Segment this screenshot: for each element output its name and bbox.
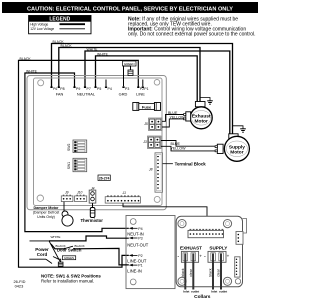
doc number	[14, 279, 26, 288]
svg-text:0423: 0423	[15, 283, 24, 288]
svg-text:P1: P1	[144, 87, 148, 91]
arrow P2 line-out	[127, 254, 147, 264]
terminal P1 pad	[142, 86, 144, 88]
svg-text:SW1: SW1	[67, 162, 71, 169]
supply collar terminal	[204, 251, 230, 262]
collar board screw TR	[223, 220, 231, 228]
pcb hole TL	[38, 80, 44, 86]
collar board corner hole	[235, 279, 240, 284]
damper motor	[33, 202, 73, 226]
door switch black wire	[51, 244, 129, 265]
wire black P8 to exhaust motor	[59, 44, 200, 102]
inlet outlet labels	[183, 290, 227, 294]
wire J1 to collar board	[123, 203, 207, 230]
connector J10	[75, 190, 87, 201]
svg-text:LINE-IN: LINE-IN	[127, 269, 142, 274]
svg-text:Refer to installation manual.: Refer to installation manual.	[41, 278, 94, 283]
pcb hole BR	[154, 196, 160, 202]
connector B1 collar board right	[236, 219, 247, 245]
svg-text:+: +	[199, 254, 202, 259]
green ground wire box	[123, 61, 137, 86]
svg-text:Collars: Collars	[194, 294, 211, 300]
interface box	[126, 216, 175, 289]
terminal P2 pad	[137, 86, 139, 88]
terminal P8 pad	[58, 86, 60, 88]
collar board screw BL	[178, 277, 186, 285]
supply motor M2	[224, 134, 249, 162]
wire white P5 to exhaust motor	[96, 52, 198, 102]
arrow P3 neut-out	[127, 237, 148, 248]
svg-text:Units Only): Units Only)	[37, 215, 55, 219]
exhaust collar wires	[184, 254, 186, 290]
bottom note	[41, 273, 101, 283]
connector J1 collar board	[188, 229, 224, 238]
green wire arch	[124, 66, 131, 86]
svg-text:YELLOW: YELLOW	[171, 146, 187, 150]
svg-text:CAUTION: ELECTRICAL CONTROL PA: CAUTION: ELECTRICAL CONTROL PANEL, SERVI…	[27, 6, 233, 12]
svg-text:Motor: Motor	[195, 119, 208, 125]
svg-text:+: +	[227, 254, 230, 259]
supply collar wires	[212, 254, 214, 290]
svg-text:LINE: LINE	[136, 91, 145, 96]
svg-text:P6: P6	[53, 87, 57, 91]
svg-text:P4: P4	[108, 87, 112, 91]
svg-text:P2: P2	[138, 254, 142, 258]
terminal P9 pad	[73, 86, 75, 88]
exhaust collar terminal	[178, 251, 203, 262]
wire black P6 to supply motor	[52, 40, 233, 134]
svg-text:GREEN: GREEN	[64, 256, 74, 260]
terminal P6 pad	[50, 86, 52, 88]
caution banner	[2, 2, 258, 13]
green wire and lug	[53, 256, 76, 267]
interface box hole bottom	[130, 279, 136, 285]
terminal P4 stub	[105, 80, 107, 87]
dip switch SW1	[67, 158, 87, 171]
svg-text:clear: clear	[217, 268, 221, 277]
svg-text:Exhaust: Exhaust	[192, 113, 211, 119]
arrow P4 neut-in	[127, 227, 143, 236]
control PCB board	[34, 78, 163, 206]
connector J4	[89, 187, 96, 204]
collar board screw BR	[223, 277, 231, 285]
svg-text:outlet: outlet	[219, 290, 227, 294]
svg-text:Supply: Supply	[229, 144, 245, 150]
exhaust motor M1	[190, 102, 212, 129]
terminal block callout	[163, 161, 207, 166]
wire blue J5 to exhaust motor	[162, 111, 184, 121]
supply motor ground	[233, 126, 246, 132]
svg-text:P5: P5	[97, 87, 101, 91]
svg-text:Thermistor: Thermistor	[81, 218, 104, 223]
arrow P1 line-in	[127, 264, 142, 274]
svg-text:FAN: FAN	[56, 91, 64, 96]
connector J1 main board	[105, 191, 140, 203]
svg-text:Inlet: Inlet	[183, 290, 189, 294]
svg-text:J10: J10	[76, 190, 82, 194]
connector J8 terminal block	[148, 153, 163, 192]
svg-text:LEGEND: LEGEND	[49, 17, 70, 23]
chassis lug	[128, 70, 133, 76]
wire blue J3 to supply motor	[161, 141, 215, 147]
exhaust motor connector	[184, 112, 191, 121]
svg-text:black: black	[209, 268, 213, 277]
svg-text:P3: P3	[138, 237, 142, 241]
svg-text:EXHUAST: EXHUAST	[180, 245, 202, 250]
terminal P5 pad	[94, 86, 96, 88]
terminal P4 pad	[105, 86, 107, 88]
wire yellow J3 to supply motor	[161, 146, 215, 151]
svg-text:GREEN: GREEN	[124, 62, 135, 66]
svg-text:SUPPLY: SUPPLY	[209, 245, 227, 250]
svg-text:Cord: Cord	[37, 252, 48, 257]
svg-text:NEUT-OUT: NEUT-OUT	[127, 242, 148, 247]
fuse F1	[133, 103, 161, 111]
svg-text:LINE-OUT: LINE-OUT	[127, 259, 147, 264]
power cord white wire to collar box	[49, 235, 129, 241]
power cord	[29, 241, 60, 264]
svg-text:J9: J9	[64, 190, 69, 194]
svg-text:J3: J3	[142, 140, 147, 144]
enclosure box	[27, 76, 166, 210]
wire white left neut	[25, 69, 129, 231]
svg-text:clear: clear	[189, 268, 193, 277]
svg-text:P8: P8	[60, 87, 64, 91]
svg-text:J1: J1	[122, 191, 127, 195]
svg-text:(Damper Defrost: (Damper Defrost	[33, 211, 60, 215]
svg-text:J5: J5	[143, 122, 148, 126]
svg-text:P7: P7	[87, 87, 91, 91]
svg-text:Inlet: Inlet	[211, 290, 217, 294]
collar board screw TL	[178, 220, 186, 228]
legend box	[29, 16, 91, 34]
wire white P7 to supply motor	[85, 48, 230, 134]
terminal P1 stub	[142, 80, 144, 87]
part number label 26-274	[98, 175, 110, 181]
svg-text:BLUE: BLUE	[171, 142, 181, 146]
svg-text:12V Low Voltage: 12V Low Voltage	[30, 27, 54, 31]
svg-text:26-274: 26-274	[99, 176, 110, 180]
supply motor connector	[215, 144, 223, 153]
connector J2 collar board right	[235, 257, 240, 277]
wire black left line-out	[19, 57, 139, 267]
terminal P3 pad	[122, 86, 124, 88]
svg-text:only. Do not connect external: only. Do not connect external power sour…	[128, 32, 255, 38]
svg-text:Damper Motor: Damper Motor	[34, 206, 60, 210]
svg-text:P1: P1	[138, 264, 142, 268]
svg-text:P9: P9	[76, 87, 80, 91]
svg-text:SW2: SW2	[67, 144, 71, 151]
thermistor RT1	[81, 203, 104, 223]
svg-text:black: black	[181, 268, 185, 277]
collar board	[176, 216, 242, 286]
svg-text:Terminal Block: Terminal Block	[175, 161, 207, 166]
pcb hole TR	[154, 80, 160, 86]
connector J3	[142, 136, 161, 149]
svg-text:Fuse: Fuse	[142, 104, 152, 109]
exhaust motor ground	[200, 98, 213, 105]
svg-text:WHITE: WHITE	[51, 235, 61, 239]
svg-text:NEUT-IN: NEUT-IN	[127, 231, 143, 236]
wire yellow J5 to exhaust motor	[162, 116, 185, 127]
svg-text:High Voltage: High Voltage	[30, 22, 48, 26]
svg-text:P3: P3	[125, 87, 129, 91]
svg-text:outlet: outlet	[191, 290, 199, 294]
door switch SW	[64, 248, 66, 250]
svg-text:NEUTRAL: NEUTRAL	[77, 91, 96, 96]
terminal P7 pad	[84, 86, 86, 88]
connector J9	[61, 190, 73, 201]
svg-text:GRD: GRD	[119, 91, 128, 96]
connector J5	[143, 118, 162, 131]
note text	[128, 17, 255, 38]
pcb hole BL	[37, 195, 43, 201]
interface box hole top	[130, 219, 136, 225]
dip switch SW2	[67, 140, 87, 153]
svg-text:P4: P4	[138, 227, 142, 231]
svg-text:J8: J8	[148, 168, 153, 172]
svg-text:Motor: Motor	[230, 150, 243, 156]
